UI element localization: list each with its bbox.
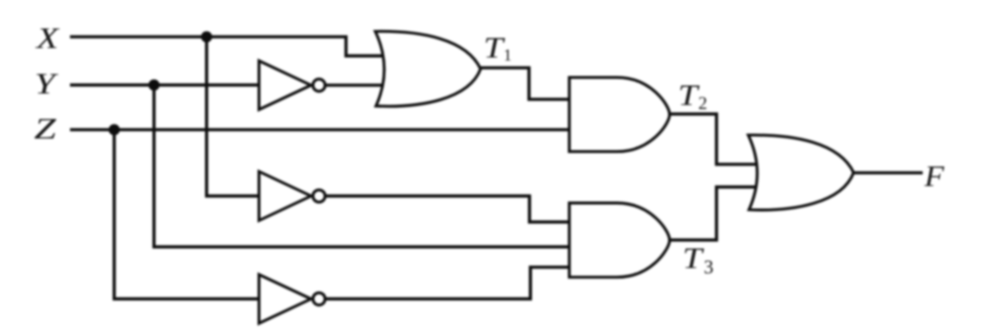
- and-gate G3 (output T3): [569, 203, 669, 277]
- wire: inverter U3 output up into AND gate (T3): [326, 267, 570, 299]
- inverter U3 (NOT Z): [259, 275, 325, 324]
- inverter U2 (NOT X): [259, 172, 325, 221]
- wire: T1 output from OR gate down into AND gate (T2): [480, 68, 570, 100]
- node: Y junction dot: [148, 79, 159, 90]
- wire: Z branch down to inverter U3: [114, 130, 259, 299]
- svg-text:T: T: [683, 242, 705, 275]
- svg-text:T: T: [484, 31, 506, 64]
- and-gate G2 (output T2): [569, 77, 669, 151]
- wire: inverter U2 output down into AND gate (T3): [326, 196, 570, 222]
- svg-text:1: 1: [504, 46, 512, 65]
- svg-text:Z: Z: [34, 113, 56, 146]
- wire: X branch down to inverter U2: [207, 37, 260, 196]
- svg-text:F: F: [923, 160, 944, 193]
- svg-text:Y: Y: [35, 68, 60, 101]
- or-gate G1 (output T1): [375, 31, 480, 106]
- wire: Y branch down then right into AND gate (T3): [154, 85, 570, 247]
- inverter U1 (NOT Y): [259, 61, 325, 110]
- wire: output F line: [853, 171, 922, 174]
- node: X junction dot: [201, 31, 212, 42]
- svg-text:2: 2: [698, 93, 707, 113]
- wire: input X horizontal with step down into OR gate: [70, 37, 384, 56]
- svg-text:T: T: [678, 79, 700, 112]
- svg-text:3: 3: [704, 258, 714, 279]
- or-gate G4 (output F): [748, 135, 853, 210]
- node: Z junction dot: [109, 124, 120, 135]
- wire: input Z horizontal to AND gate (T2): [70, 128, 570, 131]
- wire: input Y horizontal to inverter U1: [70, 83, 260, 86]
- svg-text:X: X: [35, 22, 60, 55]
- wire: T2 output down into output OR gate: [670, 114, 761, 164]
- wire: inverter U1 output to OR gate: [326, 84, 384, 87]
- wire: T3 output up into output OR gate: [670, 187, 761, 240]
